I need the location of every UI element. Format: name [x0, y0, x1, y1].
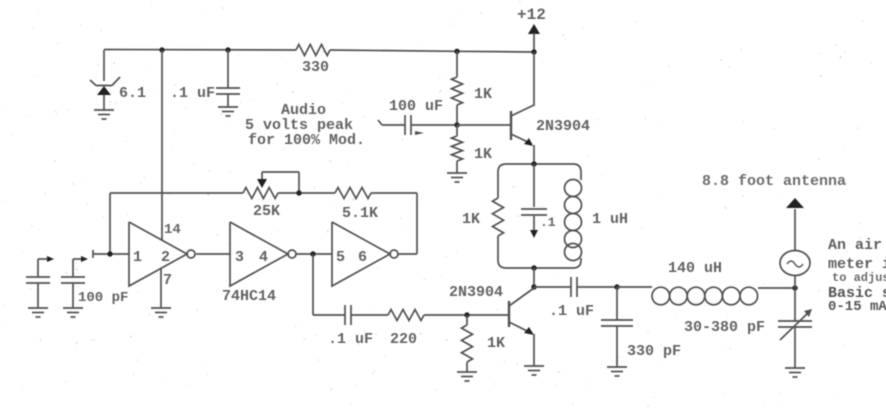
svg-text:to adjust: to adjust: [832, 271, 886, 285]
svg-text:100 uF: 100 uF: [389, 98, 443, 115]
svg-text:1K: 1K: [474, 86, 492, 103]
svg-text:220: 220: [390, 331, 417, 348]
svg-text:.1: .1: [540, 215, 556, 230]
svg-text:140 uH: 140 uH: [668, 260, 722, 277]
svg-text:1: 1: [133, 249, 142, 266]
svg-text:74HC14: 74HC14: [222, 288, 276, 305]
svg-text:14: 14: [164, 222, 181, 238]
svg-text:3: 3: [235, 249, 244, 266]
svg-text:1K: 1K: [462, 211, 480, 228]
svg-text:330 pF: 330 pF: [627, 343, 681, 360]
svg-text:+12: +12: [517, 6, 546, 24]
svg-text:5: 5: [336, 249, 345, 266]
svg-text:5.1K: 5.1K: [342, 205, 378, 222]
svg-text:6: 6: [358, 249, 367, 266]
svg-text:30-380 pF: 30-380 pF: [684, 319, 765, 336]
svg-text:7: 7: [163, 272, 172, 289]
svg-text:2N3904: 2N3904: [536, 118, 590, 135]
svg-text:for 100% Mod.: for 100% Mod.: [248, 132, 365, 149]
svg-text:2: 2: [161, 249, 170, 266]
svg-text:4: 4: [259, 249, 268, 266]
svg-text:8.8 foot antenna: 8.8 foot antenna: [702, 173, 846, 190]
svg-text:.1 uF: .1 uF: [170, 85, 215, 102]
svg-text:6.1: 6.1: [119, 85, 146, 102]
svg-text:2N3904: 2N3904: [449, 284, 503, 301]
svg-text:330: 330: [302, 59, 329, 76]
svg-text:1K: 1K: [474, 146, 492, 163]
svg-text:0-15 mA r: 0-15 mA r: [828, 299, 886, 315]
svg-text:25K: 25K: [253, 203, 280, 220]
svg-text:100 pF: 100 pF: [78, 290, 128, 306]
svg-text:1 uH: 1 uH: [592, 211, 628, 228]
svg-text:An air co: An air co: [828, 237, 886, 254]
svg-text:.1 uF: .1 uF: [549, 303, 594, 320]
svg-text:.1 uF: .1 uF: [328, 331, 373, 348]
svg-text:1K: 1K: [487, 335, 505, 352]
